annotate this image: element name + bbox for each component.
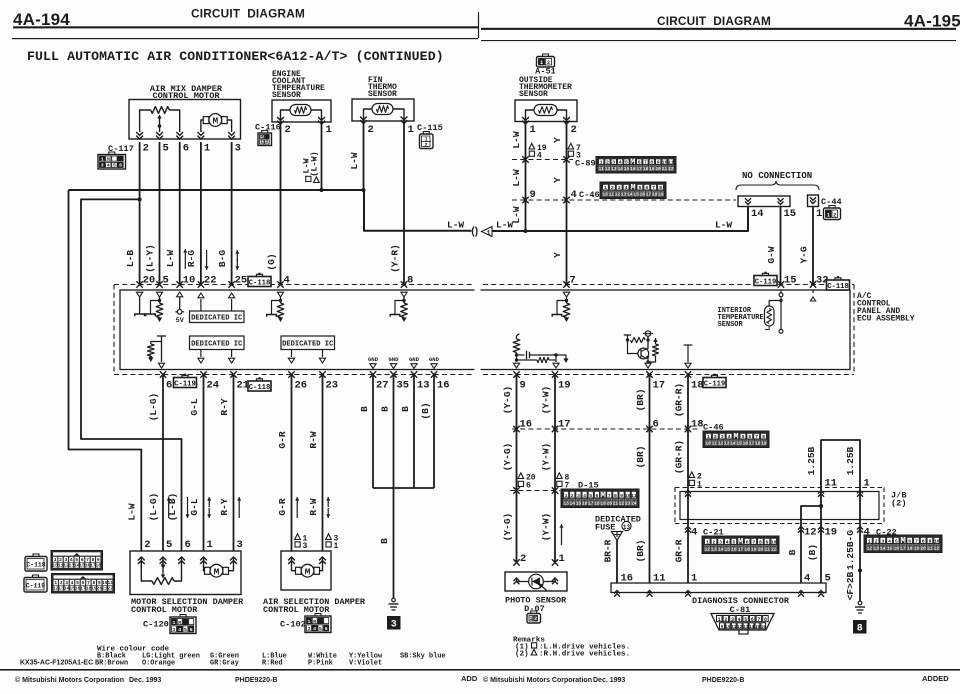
svg-text:(B): (B) [420,402,431,419]
svg-text:R-G: R-G [186,250,197,267]
svg-text:3: 3 [391,620,397,631]
junction block J/B outer dashed box [675,487,884,489]
svg-text:© Mitsubishi Motors Corporatio: © Mitsubishi Motors Corporation [483,676,592,684]
svg-text:(2): (2) [891,499,906,509]
svg-text:3: 3 [303,542,308,551]
svg-text:2: 2 [266,139,269,145]
svg-text:1: 1 [868,538,871,544]
transistor stage at ECU pin 6 [157,335,166,337]
svg-text:(Y-W): (Y-W) [540,443,551,472]
svg-text:20: 20 [921,546,927,551]
IC U1 input leads [200,299,202,311]
svg-text:ECU ASSEMBLY: ECU ASSEMBLY [857,315,915,324]
RC network at ECU pins 9 and 19 [516,334,519,339]
svg-text:© Mitsubishi Motors Corporatio: © Mitsubishi Motors Corporation [15,676,124,684]
svg-text:20: 20 [758,547,764,552]
svg-text:10: 10 [706,441,712,446]
svg-text:1: 1 [207,539,213,551]
engine coolant temperature sensor box [272,100,331,122]
svg-text:GND: GND [429,356,440,363]
connector C-115 icon [423,132,429,135]
ECU bottom pin 19 crossing [552,371,558,377]
pin note triangle 8 square 7 [557,473,563,479]
svg-text:C-119: C-119 [704,380,726,388]
connector C-102 icon [315,614,321,617]
IC U3 output leads [291,350,293,358]
ECU bottom pin 26 crossing [288,371,294,377]
svg-text:2: 2 [285,124,291,136]
connector C-46 upper strip [600,182,666,199]
svg-text:4: 4 [313,626,316,632]
header rule left thick [13,26,478,28]
motor selection damper control motor box [130,551,241,595]
svg-text:1: 1 [600,159,603,165]
svg-text:14: 14 [749,626,755,630]
svg-text:5: 5 [166,539,172,551]
wire L-W sensor pin 1 upper [525,121,527,160]
svg-text:Dec. 1993: Dec. 1993 [129,677,161,684]
svg-text:9: 9 [928,538,931,544]
svg-text:15: 15 [634,192,640,197]
svg-text:R-Y: R-Y [219,398,230,415]
svg-text:D-07: D-07 [524,604,545,614]
svg-text:3: 3 [65,580,68,586]
wire L-W from coolant sensor pin 1 to 5V bus [321,121,323,190]
header rule right thin [481,40,956,41]
svg-text:18: 18 [652,192,658,197]
fin thermo sensor leads [364,109,373,120]
junction dot L-W on right bus [524,229,528,233]
svg-text:15: 15 [725,547,731,552]
svg-text:23: 23 [326,380,339,392]
connector C-119 tag pin 15 [754,276,777,286]
wire B to ground [393,488,395,598]
svg-text:1: 1 [326,124,332,136]
svg-text:C-118: C-118 [827,283,849,291]
svg-text:(L-G): (L-G) [148,393,159,422]
svg-text:4: 4 [804,573,810,585]
wire L-B from air mix pin 2 to ECU pin 20 [139,142,141,285]
potentiometer in air mix motor [140,110,151,132]
svg-text:2: 2 [714,434,717,440]
ECU pin 5 chevron [156,292,162,297]
svg-text:6: 6 [166,380,172,392]
svg-text:8: 8 [922,538,925,544]
svg-text:14: 14 [618,167,624,172]
ECU bottom pin 6 crossing [160,371,166,377]
svg-text:2: 2 [606,159,609,165]
svg-text:19: 19 [751,547,757,552]
svg-text:17: 17 [738,547,744,552]
connector C-119 tag bottom row left [174,378,197,388]
svg-text:12: 12 [605,167,611,172]
svg-text:GR:Gray: GR:Gray [210,660,239,668]
svg-text:L-W: L-W [349,152,360,169]
svg-text:13: 13 [563,501,569,506]
svg-text:6: 6 [751,617,754,623]
svg-text:3: 3 [235,143,241,155]
svg-text:4: 4 [70,557,73,563]
svg-text:12: 12 [867,546,873,551]
svg-text:SENSOR: SENSOR [718,321,744,329]
svg-text:2: 2 [520,553,526,565]
svg-text:7: 7 [752,539,755,545]
A/C ECU outer dashed outline [114,284,854,286]
svg-text:3: 3 [101,162,104,168]
J/B internal branch wire [820,488,822,524]
signal line to ECU pin 18 [684,344,693,346]
svg-text:4: 4 [728,434,731,440]
svg-text:19: 19 [649,167,655,172]
svg-text:L-W: L-W [165,250,176,267]
wire BR-R fuse to diagnosis pin 16 [616,541,618,584]
svg-text:11: 11 [825,478,838,490]
svg-text:(Y-G): (Y-G) [502,386,513,415]
svg-text:L-B: L-B [125,250,136,267]
svg-text:11: 11 [107,580,113,586]
svg-text:19: 19 [914,546,920,551]
svg-text:Y: Y [552,252,563,258]
svg-text:CONTROL MOTOR: CONTROL MOTOR [131,605,198,615]
svg-text:6: 6 [325,626,328,632]
photodiode in photo sensor [529,574,544,589]
svg-text:15: 15 [887,546,893,551]
svg-text:SENSOR: SENSOR [368,90,397,99]
svg-text:13: 13 [621,192,627,197]
svg-text:L-W: L-W [127,503,138,520]
svg-text:(L-G): (L-G) [148,493,159,522]
svg-text:5: 5 [319,626,322,632]
svg-text:5: 5 [825,573,831,585]
svg-text:8: 8 [650,159,653,165]
wire L-W a51 to bus [525,200,527,231]
svg-text:BR:Brown: BR:Brown [95,660,128,668]
wire G-W to ECU pin 15 [780,207,782,285]
svg-text:7: 7 [570,275,576,287]
svg-text:16: 16 [630,167,636,172]
diagnosis connector box [611,583,826,593]
connector C-120 icon [180,615,186,618]
svg-text:O:Orange: O:Orange [142,660,175,668]
wire (B) J/B pin 19 to diagnosis pin 5 [820,524,822,584]
bus link to L-W inter-page wire [364,190,472,231]
svg-text:11: 11 [668,159,674,165]
svg-text:15: 15 [755,626,761,630]
svg-text:1: 1 [697,481,702,490]
svg-text:4: 4 [571,189,577,201]
svg-text:6: 6 [746,539,749,545]
svg-text:14: 14 [880,546,886,551]
svg-text:G-R: G-R [277,498,288,515]
air selection pin labels triangle square [295,534,301,540]
ECU bottom pin 17 crossing [646,371,652,377]
svg-text:B: B [787,549,798,555]
svg-text:1: 1 [173,620,176,626]
connector C-118 tag bottom row [248,381,271,391]
svg-text:B: B [380,406,391,412]
svg-text:8: 8 [407,275,413,287]
svg-text:3: 3 [731,617,734,623]
wire Y-G to ECU pin 32 [812,207,814,285]
svg-text:9: 9 [98,580,101,586]
pin note triangle 7 square 3 [568,143,574,149]
wire L-W from fin sensor pin 2 to 5V bus [363,121,365,190]
svg-text:11: 11 [712,441,718,446]
wire G-R ECU pin 26 to air selection [291,375,293,552]
svg-text:G-L: G-L [189,498,200,515]
thermistor in engine coolant sensor [290,105,311,116]
transistor Q1 circuit at ECU pin 17 [645,331,650,336]
svg-text:15: 15 [576,501,582,506]
svg-text:B: B [400,406,411,412]
connector C-119 pin grid [52,574,115,594]
svg-text:9: 9 [620,493,623,499]
svg-text:B-G: B-G [217,250,228,267]
svg-text:16: 16 [894,546,900,551]
svg-text:15: 15 [737,441,743,446]
wire 1.25B-G to ground [859,524,861,602]
svg-text:A-51: A-51 [535,67,556,77]
svg-text:15: 15 [624,167,630,172]
svg-text:4: 4 [738,617,741,623]
svg-text:6: 6 [908,538,911,544]
svg-text:12: 12 [737,626,743,630]
svg-text:5: 5 [638,185,641,191]
svg-text:8: 8 [762,434,765,440]
svg-text:PHDE9220-B: PHDE9220-B [702,677,744,684]
svg-text:2: 2 [144,539,150,551]
ECU top pin 7 crossing [563,281,569,287]
svg-text:C-118: C-118 [26,562,45,569]
connector C-81 icon [711,614,774,631]
svg-text:4: 4 [619,159,622,165]
svg-text:17: 17 [900,546,906,551]
svg-text:25: 25 [235,275,248,287]
svg-text:ADDED: ADDED [922,674,949,683]
svg-text:2: 2 [724,617,727,623]
svg-text:(BR): (BR) [635,389,646,412]
svg-text:18: 18 [691,419,704,431]
svg-text:C-102: C-102 [280,620,306,630]
svg-text:18: 18 [95,563,101,569]
svg-text:10: 10 [725,626,731,630]
svg-text:3: 3 [721,434,724,440]
wire (L-Y) from air mix pin 5 to ECU pin 5 [159,142,161,285]
wire B-G from air mix pin 3 to ECU pin 25 [231,142,233,285]
ECU top pin 25 crossing [228,281,234,287]
connector C-44 stub box [808,195,819,207]
svg-text:(Y-W): (Y-W) [540,513,551,542]
svg-text:13: 13 [711,547,717,552]
svg-text:3: 3 [308,626,311,632]
svg-text:10: 10 [625,493,631,499]
svg-text:5: 5 [75,557,78,563]
bus left branch to motor selection pin 2 [69,190,142,551]
svg-text:C-119: C-119 [755,278,777,286]
svg-text:21: 21 [662,167,668,172]
svg-text:22: 22 [668,167,674,172]
svg-text:M: M [212,116,218,127]
svg-text:21: 21 [613,501,619,506]
svg-text:7: 7 [755,434,758,440]
svg-text:3: 3 [719,539,722,545]
thermistor in fin thermo sensor [372,104,393,115]
svg-text:L-W: L-W [511,169,522,186]
svg-text:5: 5 [113,162,116,168]
outside thermometer sensor leads [526,110,535,121]
IC U2 output leads [200,350,202,358]
svg-text:15: 15 [784,208,797,220]
footer rule [0,669,960,671]
svg-text:17: 17 [588,501,594,506]
svg-text:8: 8 [614,493,617,499]
svg-text:L-W: L-W [715,220,732,231]
svg-text:L-W: L-W [511,131,522,148]
svg-text:(GR-R): (GR-R) [673,440,684,474]
svg-text:5: 5 [163,275,169,287]
svg-text:6: 6 [190,627,193,633]
ECU top pin 4 crossing [277,281,283,287]
svg-text:22: 22 [771,547,777,552]
svg-text:18: 18 [691,380,704,392]
svg-text:2: 2 [534,616,537,622]
svg-text:14: 14 [751,208,764,220]
svg-text:9: 9 [520,380,526,392]
direction arrow up beside G-R [296,497,298,518]
svg-text:7: 7 [644,159,647,165]
connector C-118 pin grid [51,551,103,571]
svg-text:8: 8 [91,557,94,563]
svg-text:3: 3 [237,539,243,551]
svg-text:16: 16 [520,419,533,431]
ECU bottom pin 21 crossing [230,371,236,377]
svg-text:1: 1 [827,212,830,218]
svg-text:11: 11 [653,573,666,585]
svg-text:17: 17 [653,380,666,392]
svg-text:1.25B: 1.25B [845,446,856,475]
wire 1.25B-G through J/B [859,488,861,524]
ECU pin 7 chevron [563,292,569,297]
svg-text:27: 27 [376,380,389,392]
ground symbol right page [858,601,862,605]
svg-text:(BR): (BR) [635,446,646,469]
svg-text:5: 5 [744,617,747,623]
svg-text:20: 20 [656,167,662,172]
svg-text:1: 1 [604,185,607,191]
svg-text:18: 18 [907,546,913,551]
wire (G) from coolant sensor pin 2 to ECU pin 4 [280,121,282,285]
svg-text:9: 9 [97,557,100,563]
svg-text:12: 12 [718,441,724,446]
svg-text:9: 9 [766,539,769,545]
svg-text:M: M [214,566,220,577]
svg-text:4A-195: 4A-195 [904,12,960,31]
wire (BR) ECU pin 17 down [649,375,651,584]
svg-text:DEDICATED IC: DEDICATED IC [191,314,243,322]
svg-text:6: 6 [183,143,189,155]
resistor on ECU pin 5 [159,297,161,303]
svg-text:13: 13 [724,441,730,446]
direction arrows beside G-L [208,497,210,507]
pin 4 hook branch with end bar [272,301,281,315]
svg-text:14: 14 [627,192,633,197]
connector C-46 lower strip [703,431,769,448]
svg-text:18: 18 [594,501,600,506]
svg-text:G-L: G-L [189,398,200,415]
motor M3 in air selection motor [296,567,302,574]
svg-text:20: 20 [143,275,156,287]
svg-text:3: 3 [612,159,615,165]
svg-text:2: 2 [713,539,716,545]
ECU bottom pin 18 crossing [685,371,691,377]
svg-text:7: 7 [757,617,760,623]
svg-text:DEDICATED IC: DEDICATED IC [282,341,334,349]
svg-text:6: 6 [119,162,122,168]
svg-text:10: 10 [934,538,940,544]
resistor on ECU pin 4 [280,297,282,303]
wire L-W a51 mid [525,160,527,201]
svg-text:6: 6 [526,482,531,491]
C-46 upper crossing marks [522,197,528,203]
svg-text:PHDE9220-B: PHDE9220-B [235,677,277,684]
svg-text:2: 2 [143,143,149,155]
svg-text:4: 4 [691,527,697,539]
svg-text:5: 5 [895,538,898,544]
svg-text:R:Red: R:Red [262,660,283,668]
svg-text:Y: Y [552,177,563,183]
page edge bracket [472,227,477,237]
air selection damper control motor box [281,551,331,590]
A/C ECU inner solid box [120,290,850,370]
svg-text:(BR): (BR) [635,540,646,563]
svg-text:GND: GND [409,356,420,363]
svg-text:14: 14 [570,501,576,506]
svg-text:5: 5 [76,580,79,586]
connector C-119 tag pin 18 [703,378,726,388]
svg-text:12: 12 [615,192,621,197]
outside thermometer sensor box [515,100,577,122]
svg-text:10: 10 [183,275,196,287]
svg-text:2: 2 [833,212,836,218]
svg-text:(2): (2) [515,651,529,659]
svg-text:24: 24 [631,501,637,506]
direction arrow down beside (L-B) [187,497,189,518]
svg-text:C-120: C-120 [143,620,169,630]
ECU bottom pin 16 crossing [431,371,437,377]
direction arrow up beside (L-G) [168,497,170,518]
svg-text:5: 5 [589,493,592,499]
svg-text:7: 7 [915,538,918,544]
svg-text:4: 4 [583,493,586,499]
svg-text:L-W: L-W [496,220,513,231]
dedicated fuse 13 symbol [612,532,623,541]
wire R-G from air mix pin 1 to ECU pin 22 [200,142,202,285]
svg-text:8: 8 [759,539,762,545]
ECU top pin 15 crossing [778,281,784,287]
svg-text:M: M [313,619,316,625]
svg-text:BR-R: BR-R [602,539,613,562]
direction arrow up beside R-Y [238,497,240,518]
ECU pin 4 chevron [277,292,283,297]
svg-text:2: 2 [571,124,577,136]
L-W bus wire right page [492,207,748,232]
svg-text:GND: GND [368,356,379,363]
svg-text:R-W: R-W [308,498,319,515]
svg-text:3: 3 [65,557,68,563]
svg-text:1: 1 [487,230,491,237]
svg-text:6: 6 [81,557,84,563]
header rule right thick [481,28,956,30]
